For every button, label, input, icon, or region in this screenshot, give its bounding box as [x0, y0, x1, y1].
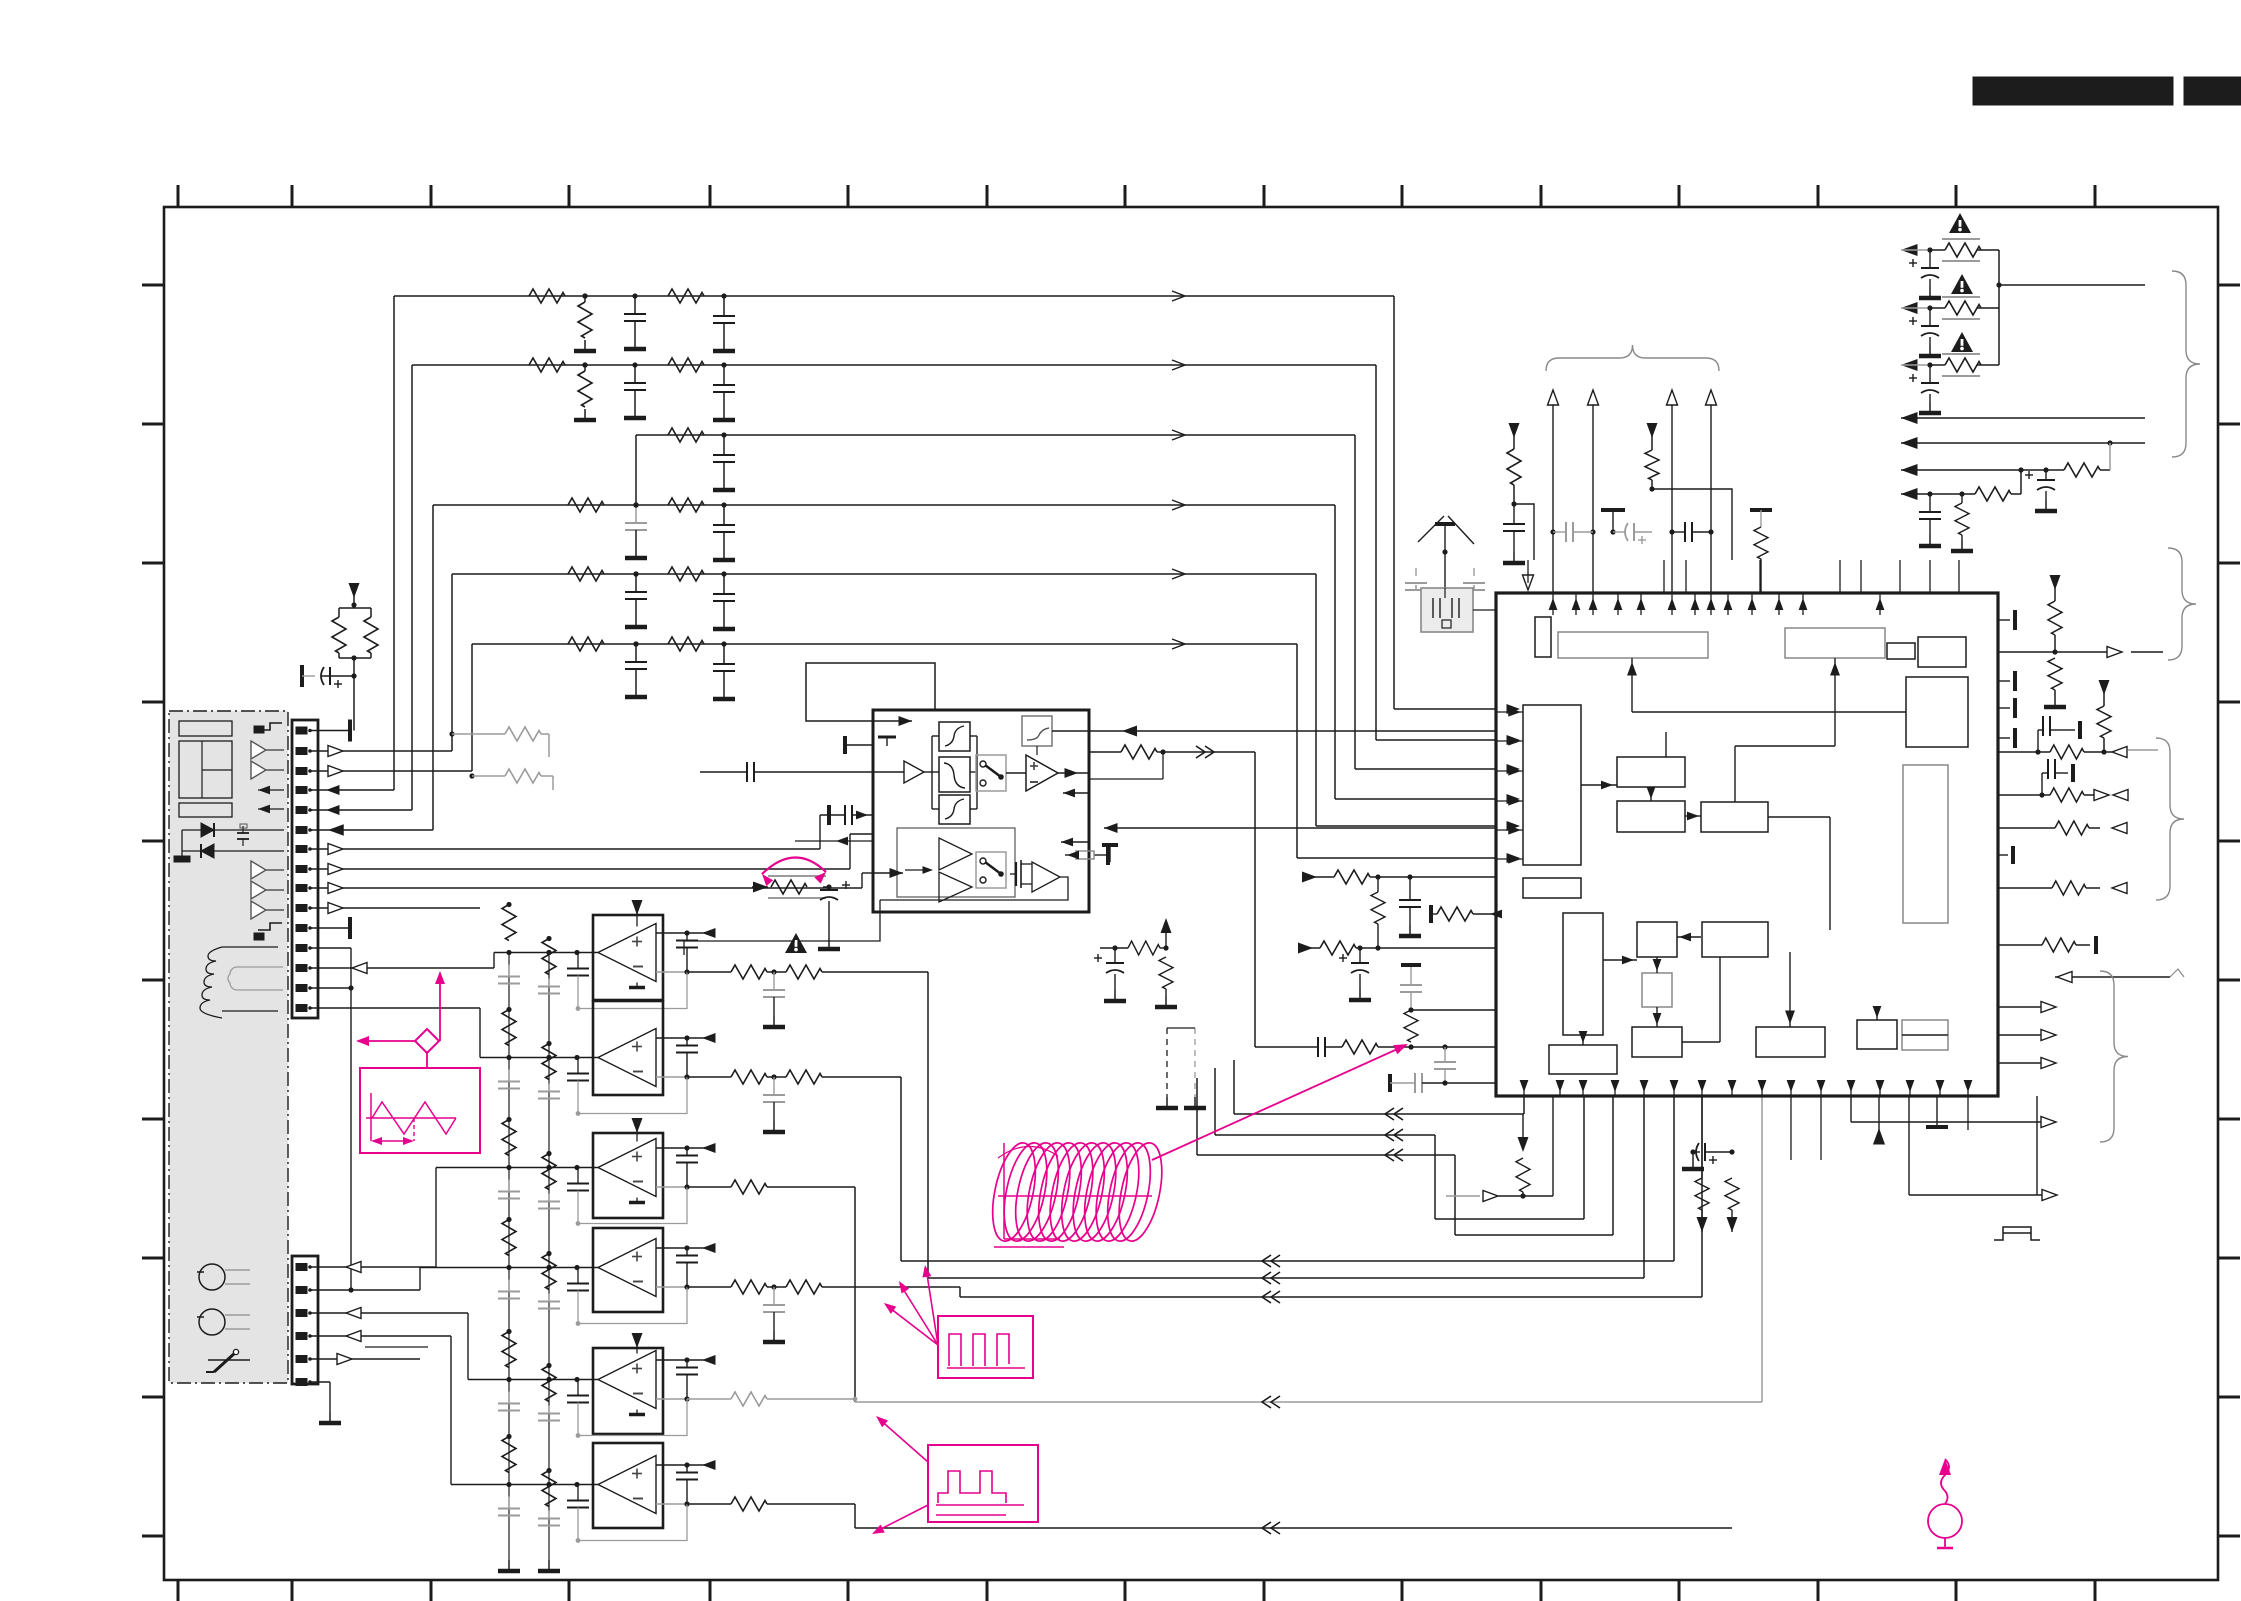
IC internal wire 10: [1603, 959, 1637, 961]
ladder resistor A1: [502, 905, 516, 941]
RGB out row2: [1998, 794, 2042, 796]
focus bus vertical: [1998, 250, 2000, 365]
J2 pin4 wire open-left arrow: [310, 1335, 451, 1337]
sandcastle up arrow: [1165, 925, 1167, 948]
connector J1 pin 3: [296, 768, 307, 775]
op-amp U3 box: [593, 1133, 663, 1218]
warning triangle TR1: [1949, 213, 1971, 233]
J2 pin2 wire: [310, 1289, 420, 1291]
pink coil axis: [998, 1195, 1152, 1197]
solid arrow row3 into IC: [1507, 764, 1521, 774]
crystal resonator tent: [1418, 516, 1474, 544]
op-amp U3 plus output: [656, 1147, 687, 1149]
IC internal wire 16: [1665, 732, 1667, 757]
supply resistor left of brace: [1509, 423, 1520, 438]
op-amp U5 internal ground: [636, 1410, 638, 1414]
polarized cap below pot: [828, 887, 830, 890]
resistor RC row2: [1313, 947, 1320, 949]
IC sub-block: brightness block: [1617, 801, 1685, 832]
IC sub-block: protection block: [1756, 1027, 1825, 1057]
decoupling cap row: ground bar: [1601, 508, 1625, 512]
right chain ground: [2054, 696, 2056, 705]
op-amp U1 feedback loop: [578, 972, 687, 1009]
op-amp U1 feedback arrow: [702, 928, 716, 938]
ground row5 Cb: [723, 618, 725, 627]
sandcastle ground A: [1114, 990, 1116, 999]
op-amp U5 output capacitor: [686, 1360, 688, 1368]
CRT tube symbol: [179, 721, 232, 736]
connector J1 pin 15: [296, 1005, 307, 1012]
wire IC to soft-clip (y731): [1122, 730, 1496, 732]
lower triangle A: [939, 838, 972, 870]
sandcastle vertical resistor: [1163, 945, 1168, 950]
pin1 wire to supply bar: [310, 730, 350, 732]
IC internal wire 1: [1631, 658, 1633, 712]
below-IC U-bus B: [1215, 1134, 1435, 1136]
focus bus to brace: [1999, 284, 2145, 286]
limiter input arrow top: [873, 720, 912, 722]
ladder capacitor B6: [548, 1511, 550, 1519]
op-amp U5 plus output: [656, 1359, 687, 1361]
decoupling cap row: cap C: [1669, 529, 1674, 534]
J2 pin5 aux segment: [365, 1346, 428, 1348]
capacitor row1 C-b: [721, 293, 726, 298]
op-amp U2 plus output: [656, 1037, 687, 1039]
connector J1 pin 11: [296, 925, 307, 932]
limiter output arrow: [1058, 772, 1089, 774]
arrow into RC cluster row2: [1298, 943, 1313, 954]
op-amp U6 plus output: [656, 1464, 687, 1466]
brace right group 1: [2168, 548, 2196, 660]
video limiter box: [873, 710, 1089, 912]
resistor supply Rb (parallel pair): [370, 608, 372, 617]
op-amp U6 input wire: [450, 1336, 452, 1485]
IC sub-block: V-output block: [1549, 1045, 1617, 1074]
warning triangle near pot: [785, 933, 807, 953]
cap bar row y1083: [1388, 1074, 1392, 1092]
grid arrow 2: [258, 805, 270, 814]
IC sub-block: luma delay block: [1558, 632, 1708, 658]
connector J1 pin 14: [296, 985, 307, 992]
out row arrow 4 (below IC): [1851, 1121, 2045, 1123]
trimmer capacitor: [237, 832, 249, 834]
IC sub-block: clamp pulse block: [1523, 878, 1581, 898]
IC sub-block: sync separator block: [1785, 628, 1885, 658]
supply resistor link into IC: [1514, 504, 1534, 560]
resistor row5 R-a: [568, 567, 604, 581]
resistor row6 R-b: [668, 637, 704, 651]
pulse glyph: [1994, 1227, 2040, 1240]
op-amp U4 plus output: [656, 1247, 687, 1249]
IC internal wire 12: [1682, 1041, 1720, 1043]
pin8 wire: [310, 868, 850, 870]
drawing frame: [164, 207, 2218, 1580]
limiter buffer triangle: [904, 761, 924, 783]
IC internal wire 9: [1656, 1007, 1658, 1027]
pink measurement wand: [1939, 1459, 1951, 1475]
op-amp U2 triangle: [598, 1029, 656, 1087]
op-amp U5 input capacitor: [577, 1380, 579, 1396]
ground row6 Cb: [723, 688, 725, 697]
ground RC row1: [1409, 925, 1411, 934]
op-amp U6 output capacitor: [686, 1465, 688, 1473]
output network stage6 (single resistor): [687, 1503, 731, 1505]
IC internal wire 15: [1902, 1034, 1948, 1036]
deflection yoke coil outer: [200, 947, 278, 1018]
resistor row2 vertical to ground: [584, 365, 586, 371]
ladder capacitor B3: [548, 1194, 550, 1202]
ladder resistor A6: [502, 1437, 516, 1473]
op-amp U4 box: [593, 1228, 663, 1312]
out row arrow 2: [1998, 1034, 2045, 1036]
lower loop wire: [880, 877, 1068, 900]
S-curve block A: [939, 722, 970, 751]
brace top-right group: [2172, 271, 2200, 457]
IC sub-block: input clamp: [1535, 617, 1551, 657]
ladder capacitor A3: [508, 1180, 510, 1192]
resistor row1 vertical to ground: [584, 296, 586, 302]
connector J1 pin 1: [296, 727, 307, 734]
connector J2 pin 3: [296, 1310, 307, 1317]
lower triangle B: [939, 872, 972, 902]
wire feed row6 from connector pin3: [471, 644, 473, 771]
ladder resistor B2: [542, 1044, 556, 1080]
grid pin step glyph top: [258, 723, 282, 730]
ladder capacitor B1: [548, 979, 550, 987]
connector J2 body: [292, 1256, 318, 1384]
op-amp U3 input wire: [435, 1168, 437, 1268]
IC internal left block feeds: [1496, 711, 1523, 713]
limiter block bus wires: [924, 771, 932, 773]
IC internal wire 2: [1581, 784, 1617, 786]
capacitor row2 C-a: [634, 365, 636, 383]
ladder capacitor A6: [508, 1497, 510, 1509]
wire feed row2 from connector pin5: [411, 365, 413, 810]
open arrow row5: [1172, 569, 1185, 579]
pull-down resistor below IC: [1522, 1114, 1524, 1142]
IC left-edge entry arrows: [1508, 707, 1521, 716]
IC sub-block: EW block: [1702, 922, 1768, 957]
ladder capacitor A5: [508, 1392, 510, 1404]
connector J1 pin 8: [296, 866, 307, 873]
op-amp U4 triangle: [598, 1239, 656, 1297]
focus row 3: pcap to ground: [1929, 365, 1931, 383]
sandcastle ground B: [1165, 996, 1167, 1005]
wire pull-down node to IC drop: [1523, 1195, 1553, 1197]
wire vertical heater feed x351: [350, 948, 352, 1291]
RGB out row4: [1998, 887, 2052, 889]
op-amp U3 input capacitor: [577, 1168, 579, 1184]
ladder resistor B6: [542, 1471, 556, 1507]
op-amp U3 triangle: [598, 1139, 656, 1197]
wire limiter output to pump (y752): [1089, 751, 1121, 753]
grid pin step glyph bottom: [258, 923, 282, 930]
gun electrode triangle 1: [251, 741, 284, 759]
LED diode 1: [201, 823, 214, 837]
op-amp U1 input wire: [493, 953, 495, 969]
op-amp U1 internal ground: [636, 983, 638, 987]
limiter lower section box: [897, 828, 1015, 897]
pin5 wire solid arrow from row2 feed: [310, 809, 412, 811]
pin15 wire open-left arrow: [310, 1007, 480, 1009]
crystal box: [1421, 588, 1473, 632]
out row arrow 3: [1998, 1062, 2045, 1064]
op-amp U2 output capacitor: [686, 1038, 688, 1046]
title bar block 1: [1973, 77, 2173, 105]
grid arrow 1: [258, 786, 270, 795]
ladder resistor B4: [542, 1254, 556, 1290]
sense row open-left arrow: [2055, 976, 2170, 978]
wire row2 horizontal bus: [412, 364, 1376, 366]
cap+resistor into IC y914: [1429, 905, 1433, 923]
cap stub right 4: [1998, 737, 2010, 739]
phosphor triangle 1: [251, 861, 284, 879]
connector J1 pin 7: [296, 846, 307, 853]
RGB out row3: [1998, 827, 2055, 829]
ground row4 Ca: [635, 547, 637, 556]
capacitor row1 C-a: [634, 296, 636, 314]
heater row 4: [1901, 417, 2145, 419]
H-drive RC network node: [1410, 965, 1412, 968]
brace right group 3: [2100, 971, 2128, 1142]
lower FET: [1010, 873, 1016, 875]
resistor RC row1: [1317, 876, 1334, 878]
focus row 1: pcap to ground: [1929, 250, 1931, 268]
pink vertical arrow up: [439, 975, 441, 1041]
pink V pulse waveform: [936, 1471, 1024, 1515]
speaker circle 1: [199, 1264, 225, 1290]
op-amp U4 output capacitor: [686, 1248, 688, 1256]
ground row5 Ca: [635, 616, 637, 625]
LED wiring: [182, 829, 201, 831]
pin12 wire to lower connector feed: [310, 947, 351, 949]
open arrow row6: [1172, 639, 1185, 649]
ground row2 Ca: [634, 407, 636, 416]
pink sawtooth marker: [413, 1118, 415, 1141]
IC internal wire 6: [1768, 816, 1830, 818]
op-amp U6 triangle: [598, 1456, 656, 1514]
row 6 with resistor: [1901, 469, 2021, 471]
pink pointer coil to IC: [1152, 1046, 1404, 1160]
ground dashed link: [1166, 1097, 1168, 1106]
LED diode 2: [201, 844, 214, 858]
RGB out row1: [1998, 751, 2038, 753]
supply arrow down: [349, 583, 360, 598]
open arrow row4: [1172, 500, 1185, 510]
wire row4 horizontal bus: [433, 504, 1335, 506]
series cap on limiter input: [746, 762, 748, 782]
ground row6 Ca: [635, 686, 637, 695]
limiter cap input: [827, 805, 831, 825]
IC internal wire 13: [1789, 1008, 1791, 1027]
arrow into RC cluster row1: [1302, 872, 1317, 883]
capacitor row6 C-b: [721, 641, 726, 646]
op-amp U2 feedback loop: [578, 1077, 687, 1114]
J2 pin6 wire to ground: [310, 1381, 330, 1383]
cap stub y850: [1102, 843, 1118, 847]
IC sub-block: osc block: [1902, 1020, 1948, 1050]
resistor supply Ra (parallel pair): [353, 603, 355, 608]
IC internal wire 11: [1582, 1035, 1584, 1045]
op-amp U2 input capacitor: [577, 1058, 579, 1074]
solid arrow row2 into IC: [1507, 735, 1521, 745]
IC internal wire 5: [1734, 746, 1736, 802]
gray feedback resistor lower: [469, 773, 474, 778]
resistor row2 R-a: [529, 358, 565, 372]
right supply bar + resistor: [1750, 508, 1772, 512]
op-amp U3 power arrow: [632, 1118, 643, 1133]
RGB row2 cap: [2041, 773, 2043, 795]
wire curve box to edge: [1052, 730, 1089, 732]
op-amp U6 feedback arrow: [702, 1460, 716, 1470]
pink H pulse waveform: [947, 1334, 1025, 1368]
op-amp U3 feedback arrow: [702, 1143, 716, 1153]
connector J2 pin 4: [296, 1333, 307, 1340]
solid arrow row5 into IC: [1507, 821, 1521, 831]
IC sub-block: divider: [1887, 643, 1915, 659]
pin2 wire with open arrow to row5 feed: [310, 750, 452, 752]
pink sawtooth waveform: [366, 1093, 456, 1141]
open arrow row2: [1172, 360, 1185, 370]
pin11 wire to supply bar: [310, 927, 350, 929]
ground below J2: [329, 1412, 331, 1421]
connector J1 pin 13: [296, 965, 307, 972]
cap stub right 2: [1998, 680, 2010, 682]
vertical sense line 3: [1671, 395, 1673, 593]
ladder ground B: [548, 1560, 550, 1569]
connector J1 body: [292, 720, 318, 1018]
pink adjustment arc: [762, 857, 826, 874]
op-amp U5 input wire: [467, 1313, 469, 1380]
op-amp U6 feedback loop: [578, 1504, 687, 1541]
op-amp U4 feedback loop: [578, 1287, 687, 1324]
heater row 5: [1901, 442, 2145, 444]
connector J2 pin 6: [296, 1379, 307, 1386]
pink diamond service point: [415, 1029, 439, 1053]
IC sub-block: H-driver block: [1632, 1027, 1682, 1057]
op-amp U3 minus output: [656, 1186, 687, 1188]
capacitor row4 C-a: [635, 505, 637, 523]
IC sub-block: phase detector block: [1906, 677, 1968, 747]
pink sawtooth waveform box: [360, 1068, 480, 1153]
S-cap gnd: [1692, 1152, 1694, 1158]
IC top pin plain stubs: [1663, 560, 1665, 593]
S-curve block C: [939, 795, 970, 824]
op-amp U1 output capacitor: [686, 933, 688, 941]
ladder capacitor B2: [548, 1084, 550, 1092]
out row arrow 1: [1998, 1006, 2045, 1008]
wire pot node to limiter: [684, 940, 795, 942]
IC main box (video/deflection processor): [1496, 593, 1998, 1096]
op-amp U2 feedback arrow: [702, 1033, 716, 1043]
resistor row4 R-a: [568, 498, 604, 512]
wire y752 node branch: [1162, 752, 1164, 779]
dashed service link: [1166, 1028, 1168, 1097]
crystal output wire: [1473, 609, 1496, 611]
ladder resistor A4: [502, 1220, 516, 1256]
row 7 resistor to ground: [1961, 494, 1963, 503]
J2 pin1 wire open-left arrow: [310, 1266, 436, 1268]
decoupling cap row: pcap B: [1613, 531, 1626, 533]
pin6 wire solid arrow from row4 feed: [310, 829, 433, 831]
IC internal bus y712: [1632, 711, 1906, 713]
decoupling cap row: cap A: [1550, 529, 1555, 534]
feedback into limiter y842: [1061, 841, 1089, 843]
brace over IC top: [1546, 345, 1719, 371]
op-amp U4 minus output: [656, 1286, 687, 1288]
crystal symbol: [1433, 598, 1459, 618]
IC internal wire 7: [1677, 936, 1701, 938]
capacitor row6 C-a: [635, 644, 637, 662]
gun electrode triangle 2: [251, 761, 284, 779]
RGB row1 cap: [2037, 730, 2039, 752]
capacitor row3 C-b: [721, 432, 726, 437]
supply 2 link: [1652, 489, 1732, 560]
output network stage1 (resistors+cap): [687, 971, 731, 973]
pink arrows from H waveform box: [886, 1305, 938, 1345]
ladder resistor B1: [542, 939, 556, 975]
pink waveform box H (flyback pulses): [938, 1316, 1033, 1378]
flyback row y1047: [1255, 1046, 1318, 1048]
connector J2 pin 5: [296, 1356, 307, 1363]
connector J1 pin 2: [296, 748, 307, 755]
bar below IC right: [1926, 1125, 1948, 1129]
focus row 3: fusible resistor: [1930, 364, 1945, 366]
pink waveform box V (vertical pulses): [928, 1445, 1038, 1522]
limiter mode switch: [976, 755, 1006, 791]
ground row1 Cb: [723, 340, 725, 349]
phosphor triangle 2: [251, 881, 284, 899]
op-amp U6 input capacitor: [577, 1485, 579, 1501]
capacitor row5 C-a: [635, 574, 637, 592]
box resistor on FET feed: [1106, 845, 1110, 865]
op-amp U3 output capacitor: [686, 1148, 688, 1156]
lower switch: [976, 852, 1006, 888]
connector J1 pin 10: [296, 905, 307, 912]
wire row3 feed from row4 node: [635, 435, 637, 505]
row 7 with resistor: [1901, 493, 1975, 495]
sandcastle RC: node: [1112, 945, 1117, 950]
pink arrows from V waveform box: [878, 1418, 928, 1462]
focus row 2: pcap to ground: [1929, 308, 1931, 326]
wire feed row4 from connector pin6: [432, 505, 434, 830]
ladder resistor A3: [502, 1120, 516, 1156]
open arrow into pull-down node: [1446, 1195, 1480, 1197]
IC internal wire 4: [1685, 815, 1701, 817]
limiter op-amp: [1026, 755, 1058, 791]
focus row 2: arrow: [1901, 302, 1918, 314]
op-amp U4 input wire: [419, 1268, 421, 1291]
ladder column A rail: [508, 955, 510, 1560]
pin13 wire open-left arrow: [310, 967, 494, 969]
op-amp U2 minus output: [656, 1076, 687, 1078]
solid arrow row6 into IC: [1507, 853, 1521, 863]
limiter feedback entry arrow: [820, 840, 873, 842]
speaker circle 2: [199, 1309, 225, 1335]
ground row2 Cb: [723, 409, 725, 418]
op-amp U5 feedback arrow: [702, 1355, 716, 1365]
LED ground bar: [174, 856, 190, 862]
output network stage3: [687, 1186, 731, 1188]
ladder resistor A2: [502, 1010, 516, 1046]
capacitor row5 C-b: [721, 571, 726, 576]
J2 pin5 wire small arrow: [310, 1358, 420, 1360]
bus wire stage3+5 to IC: [855, 1401, 1762, 1403]
connector J1 pin 12: [296, 945, 307, 952]
brace right group 2 (RGB): [2156, 738, 2184, 900]
ladder resistor B5: [542, 1366, 556, 1402]
ladder capacitor A4: [508, 1280, 510, 1292]
